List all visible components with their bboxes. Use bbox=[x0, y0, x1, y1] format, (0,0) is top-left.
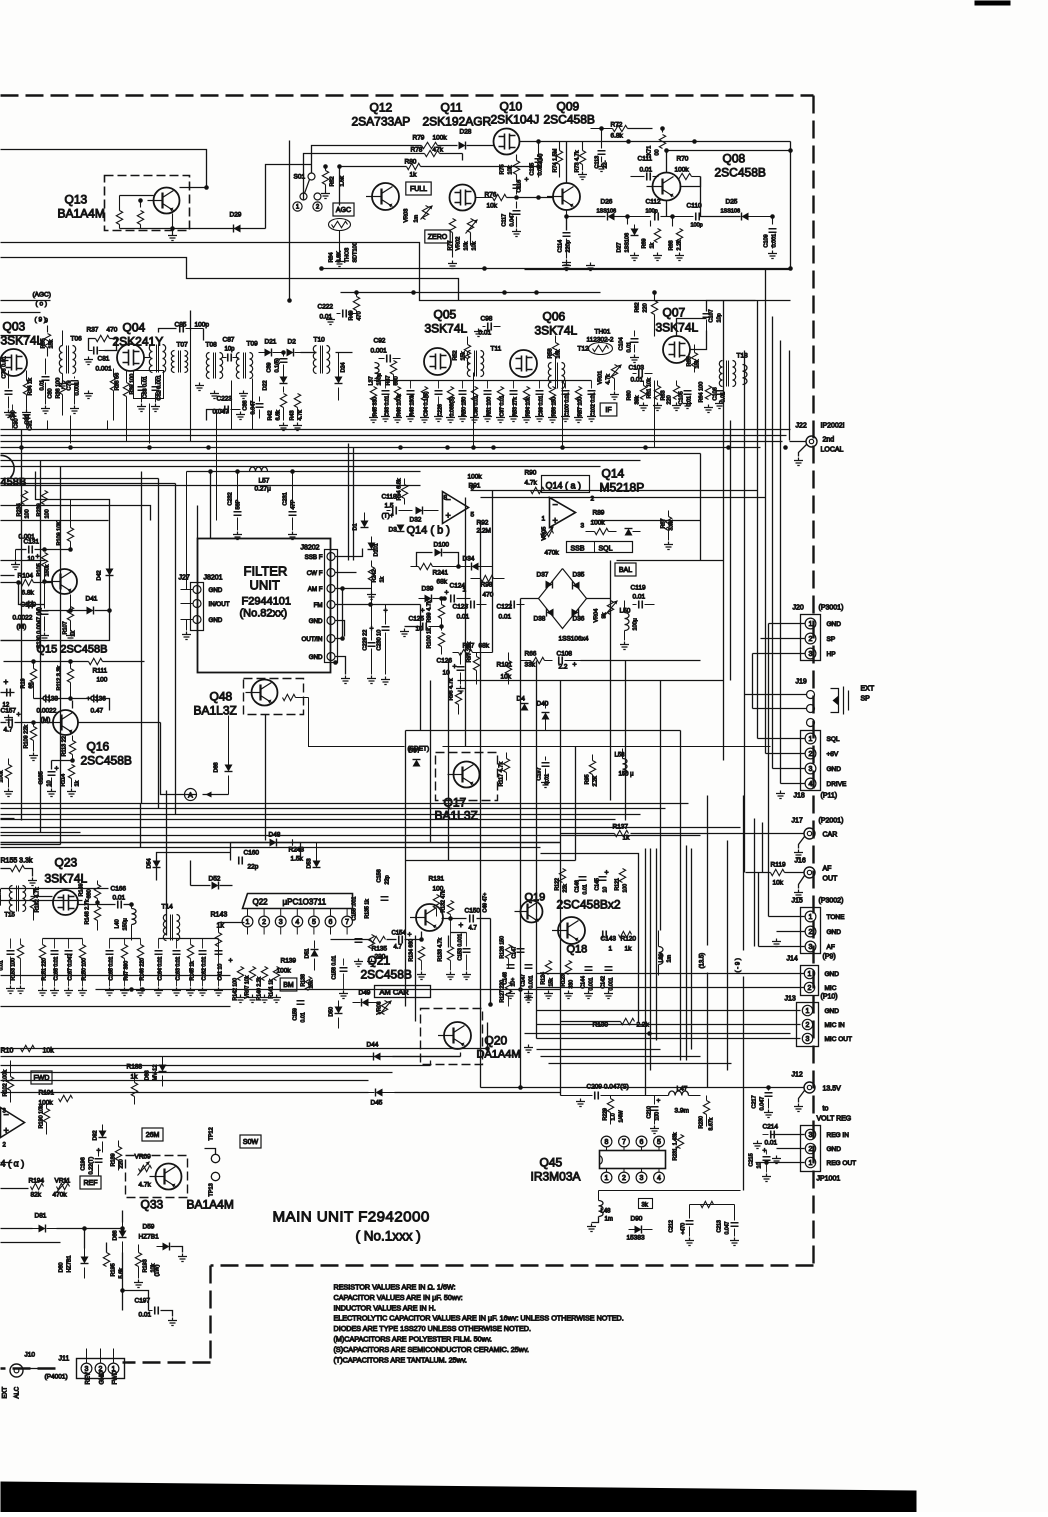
wire to J17 bbox=[631, 833, 804, 835]
top block bottom rail bbox=[525, 269, 541, 271]
svg-text:UNIT: UNIT bbox=[250, 578, 280, 593]
svg-text:BA1A4M: BA1A4M bbox=[187, 1198, 234, 1212]
svg-text:OUT: OUT bbox=[823, 876, 839, 883]
svg-text:J14: J14 bbox=[787, 956, 798, 963]
svg-text:R148 2.7k: R148 2.7k bbox=[85, 899, 91, 924]
main unit dashed border step left bbox=[123, 1361, 211, 1363]
fet Q04 bbox=[117, 344, 144, 371]
svg-text:3k: 3k bbox=[642, 1203, 649, 1209]
svg-text:+: + bbox=[453, 664, 457, 671]
ground C116 path bbox=[516, 191, 518, 195]
svg-text:R121: R121 bbox=[615, 878, 621, 891]
svg-text:220: 220 bbox=[375, 954, 386, 961]
svg-text:C142: C142 bbox=[601, 976, 607, 989]
svg-text:R130: R130 bbox=[593, 1022, 609, 1029]
svg-text:MV-12: MV-12 bbox=[153, 1065, 159, 1081]
bus stack verticals bbox=[140, 804, 142, 848]
Q15 loop wires bbox=[1, 472, 110, 641]
svg-text:D36: D36 bbox=[573, 616, 585, 623]
svg-text:R36 100: R36 100 bbox=[56, 378, 62, 399]
J22 jack bbox=[806, 436, 817, 447]
svg-text:to: to bbox=[823, 1106, 829, 1113]
svg-text:C104: C104 bbox=[619, 337, 625, 350]
svg-text:C217: C217 bbox=[752, 1095, 758, 1108]
svg-text:DRIVE: DRIVE bbox=[827, 781, 848, 788]
svg-text:R120: R120 bbox=[621, 936, 637, 943]
svg-text:0.001: 0.001 bbox=[96, 366, 113, 373]
main unit dashed border top bbox=[1, 94, 814, 96]
long vertical x420 q17 bbox=[420, 605, 422, 731]
svg-text:T10: T10 bbox=[314, 337, 326, 344]
svg-text:T15: T15 bbox=[5, 913, 16, 919]
long wire from FM pin bbox=[371, 604, 421, 606]
svg-text:220: 220 bbox=[667, 395, 673, 404]
boxed label BAL bbox=[615, 563, 636, 576]
Q45 area wires bbox=[615, 1095, 661, 1097]
svg-text:0.01: 0.01 bbox=[631, 377, 644, 384]
svg-text:C157: C157 bbox=[1, 708, 17, 715]
svg-text:4: 4 bbox=[809, 781, 813, 788]
horizontal y975 left bbox=[1, 975, 231, 977]
svg-text:FULL: FULL bbox=[410, 186, 427, 193]
long vertical x575 bbox=[575, 747, 577, 861]
right rail of top block bbox=[541, 142, 791, 270]
svg-text:2SA733AP: 2SA733AP bbox=[352, 115, 411, 129]
svg-text:J20: J20 bbox=[793, 605, 804, 612]
transistor Q16 bbox=[47, 710, 78, 735]
svg-text:+: + bbox=[605, 870, 609, 877]
wire y918 collector bbox=[442, 918, 467, 920]
bus y268 bbox=[322, 268, 791, 270]
svg-text:C150: C150 bbox=[465, 908, 481, 915]
grounds top block bbox=[562, 263, 571, 271]
svg-text:VOLT REG: VOLT REG bbox=[817, 1116, 852, 1123]
svg-text:2: 2 bbox=[809, 751, 813, 758]
svg-text:D3: D3 bbox=[389, 527, 398, 534]
svg-text:0.001: 0.001 bbox=[529, 975, 535, 988]
svg-text:C154: C154 bbox=[392, 931, 407, 937]
svg-text:R10: R10 bbox=[1, 1048, 14, 1055]
svg-text:LOCAL: LOCAL bbox=[821, 447, 844, 454]
long vertical x660 bbox=[660, 681, 662, 931]
svg-text:R62: R62 bbox=[635, 302, 641, 312]
svg-text:(AGC): (AGC) bbox=[33, 292, 51, 299]
svg-text:AGC: AGC bbox=[336, 207, 351, 214]
bus y278-292 bbox=[341, 292, 601, 294]
svg-text:C85: C85 bbox=[175, 322, 187, 329]
misc horizontals lower mid bbox=[230, 843, 232, 861]
svg-text:1: 1 bbox=[808, 971, 812, 978]
svg-text:100k: 100k bbox=[468, 474, 483, 481]
svg-text:0.01: 0.01 bbox=[139, 1312, 152, 1319]
wire R78 row bbox=[304, 154, 425, 200]
svg-text:R195: R195 bbox=[111, 1263, 117, 1276]
scan artifact black bar bottom bbox=[1, 1482, 917, 1513]
svg-text:100p: 100p bbox=[195, 322, 210, 329]
svg-text:GND: GND bbox=[827, 1146, 842, 1153]
svg-text:C82 0.001: C82 0.001 bbox=[157, 375, 163, 400]
svg-text:OUT/IN: OUT/IN bbox=[302, 636, 323, 643]
svg-text:00: 00 bbox=[655, 149, 661, 155]
svg-text:C118: C118 bbox=[382, 494, 397, 501]
J8202 pin strip bbox=[325, 550, 338, 663]
svg-text:J16: J16 bbox=[795, 858, 806, 865]
J12 jack bbox=[804, 1082, 815, 1093]
bus y989 bbox=[96, 989, 561, 991]
svg-text:C115: C115 bbox=[530, 163, 536, 176]
wires J8202 right bbox=[336, 549, 363, 557]
svg-text:4: 4 bbox=[295, 919, 299, 926]
svg-text:100: 100 bbox=[25, 509, 31, 518]
transistor Q09 bbox=[547, 183, 580, 210]
svg-text:+: + bbox=[763, 1148, 767, 1155]
svg-text:10k: 10k bbox=[487, 203, 498, 210]
svg-text:Q03: Q03 bbox=[3, 320, 26, 334]
svg-text:R113 22: R113 22 bbox=[62, 736, 68, 756]
svg-text:MIC OUT: MIC OUT bbox=[825, 1036, 852, 1043]
svg-text:R123: R123 bbox=[561, 974, 567, 987]
drops from Q20 region bbox=[487, 1023, 489, 1049]
svg-text:FWD: FWD bbox=[34, 1075, 50, 1082]
svg-text:22-: 22- bbox=[603, 160, 609, 168]
wire S01 up to R79 line bbox=[312, 146, 422, 173]
left bus stack lower bbox=[1, 1048, 488, 1050]
svg-text:(P2001): (P2001) bbox=[819, 818, 844, 825]
svg-text:Q33: Q33 bbox=[141, 1198, 164, 1212]
svg-text:3: 3 bbox=[85, 1366, 89, 1373]
svg-text:FM: FM bbox=[314, 602, 323, 609]
svg-text:Q45: Q45 bbox=[540, 1156, 563, 1170]
svg-text:C229 22: C229 22 bbox=[363, 630, 369, 651]
svg-text:C110: C110 bbox=[687, 203, 702, 210]
svg-text:R153 100: R153 100 bbox=[11, 958, 17, 981]
vertical x348 x353 bbox=[348, 444, 350, 561]
svg-text:+: + bbox=[525, 177, 529, 184]
svg-text:R84: R84 bbox=[329, 252, 335, 262]
svg-text:+: + bbox=[4, 1126, 9, 1136]
svg-text:R122: R122 bbox=[555, 878, 561, 891]
svg-text:R64 100: R64 100 bbox=[699, 382, 705, 403]
svg-text:3.9m: 3.9m bbox=[675, 1108, 689, 1115]
bus y485 bbox=[1, 485, 421, 487]
svg-text:5: 5 bbox=[657, 1139, 661, 1146]
svg-text:(1​W): (1​W) bbox=[155, 1264, 161, 1276]
Q22 pins bbox=[242, 916, 253, 927]
svg-text:(13.5): (13.5) bbox=[700, 953, 706, 969]
svg-text:2: 2 bbox=[809, 636, 813, 643]
svg-text:3: 3 bbox=[809, 944, 813, 951]
svg-text:R193: R193 bbox=[143, 1259, 149, 1272]
fet Q06 bbox=[510, 350, 537, 377]
svg-text:1/4W: 1/4W bbox=[619, 1110, 625, 1122]
long vertical x480 bbox=[480, 521, 482, 1088]
Q14a box bbox=[542, 476, 590, 493]
main unit dashed border right bbox=[812, 96, 814, 1266]
svg-text:(M)CAPACITORS ARE POLYESTER: (M)CAPACITORS ARE POLYESTER FILM. 50wv. bbox=[334, 1335, 492, 1344]
wires bottom left bbox=[1, 1228, 33, 1230]
svg-text:3SK74L: 3SK74L bbox=[535, 324, 578, 338]
svg-text:+: + bbox=[445, 590, 449, 597]
svg-text:4.7k: 4.7k bbox=[298, 410, 304, 421]
svg-text:100p: 100p bbox=[691, 223, 703, 229]
wires around Q08 bbox=[667, 151, 791, 173]
diode D91 bbox=[625, 529, 633, 536]
svg-text:BA1L3Z: BA1L3Z bbox=[435, 809, 478, 823]
svg-text:R102 100k: R102 100k bbox=[3, 1070, 9, 1097]
svg-text:C91: C91 bbox=[28, 420, 34, 430]
svg-text:IR3M03A: IR3M03A bbox=[531, 1170, 581, 1184]
svg-text:DIODES ARE TYPE 1SS270 UNL: DIODES ARE TYPE 1SS270 UNLESS OTHERWISE … bbox=[334, 1324, 531, 1333]
svg-text:33k: 33k bbox=[525, 662, 536, 669]
svg-text:L40: L40 bbox=[115, 919, 121, 928]
svg-text:R37: R37 bbox=[87, 327, 99, 334]
main unit dashed border left stub bbox=[1, 1367, 56, 1369]
svg-text:R98: R98 bbox=[481, 582, 493, 589]
main bus stack bbox=[1, 429, 791, 431]
svg-text:( No.1xxx ): ( No.1xxx ) bbox=[356, 1229, 421, 1244]
svg-text:Q22: Q22 bbox=[253, 898, 269, 907]
svg-text:R69: R69 bbox=[642, 238, 648, 248]
svg-text:VR02: VR02 bbox=[456, 237, 462, 251]
svg-text:R49: R49 bbox=[349, 310, 355, 320]
Q33 dashed box bbox=[126, 1156, 188, 1198]
svg-text:10: 10 bbox=[757, 1162, 763, 1168]
svg-text:0.001: 0.001 bbox=[609, 977, 615, 990]
svg-text:10p: 10p bbox=[225, 347, 236, 353]
svg-text:R230: R230 bbox=[699, 1116, 705, 1129]
svg-text:AM CAR: AM CAR bbox=[380, 988, 410, 997]
svg-text:FWD: FWD bbox=[113, 1370, 119, 1384]
svg-text:J8201: J8201 bbox=[204, 575, 223, 582]
svg-text:+: + bbox=[4, 678, 9, 687]
svg-text:470: 470 bbox=[357, 311, 363, 320]
right vertical bundle bbox=[757, 301, 759, 681]
svg-text:(P10): (P10) bbox=[821, 994, 838, 1001]
svg-text:GND: GND bbox=[309, 618, 323, 625]
svg-text:J19: J19 bbox=[796, 679, 807, 686]
svg-text:F2944101: F2944101 bbox=[242, 596, 292, 608]
Q48 dashed box bbox=[244, 679, 304, 715]
svg-text:IF: IF bbox=[605, 407, 611, 414]
svg-text:R75: R75 bbox=[500, 164, 506, 174]
svg-text:6: 6 bbox=[329, 919, 333, 926]
svg-text:0.047: 0.047 bbox=[725, 1221, 731, 1234]
long vertical x560 bbox=[560, 681, 562, 1096]
svg-text:R1​32 47k: R1​32 47k bbox=[441, 890, 447, 913]
svg-text:D45: D45 bbox=[371, 1100, 383, 1107]
svg-text:100p: 100p bbox=[646, 209, 658, 215]
svg-text:C212: C212 bbox=[669, 1220, 675, 1233]
svg-text:J10: J10 bbox=[25, 1352, 36, 1359]
Q16 collector wire bbox=[72, 701, 74, 709]
svg-text:R78: R78 bbox=[411, 147, 423, 154]
J8201 strip bbox=[191, 583, 204, 631]
svg-text:C209 0.047(S): C209 0.047(S) bbox=[587, 1084, 629, 1091]
svg-text:(P4001): (P4001) bbox=[45, 1374, 68, 1381]
svg-text:JP1001: JP1001 bbox=[817, 1176, 841, 1183]
svg-text:4.7: 4.7 bbox=[394, 945, 403, 951]
svg-text:R114: R114 bbox=[61, 774, 67, 787]
svg-text:1k: 1k bbox=[75, 780, 81, 786]
svg-text:10p: 10p bbox=[717, 313, 723, 322]
svg-text:4.7k: 4.7k bbox=[525, 480, 538, 487]
svg-text:C89: C89 bbox=[267, 362, 273, 372]
Q45 top pins bbox=[601, 1136, 612, 1147]
svg-text:(P9): (P9) bbox=[823, 954, 836, 961]
mid horizontals y660-700 bbox=[581, 660, 701, 662]
svg-text:REG IN: REG IN bbox=[827, 1132, 850, 1139]
main unit dashed border step down bbox=[209, 1266, 211, 1363]
svg-text:J27: J27 bbox=[179, 575, 190, 582]
svg-text:R58: R58 bbox=[548, 348, 554, 358]
svg-text:470k: 470k bbox=[53, 1192, 68, 1199]
svg-text:AM F: AM F bbox=[308, 586, 323, 593]
left partial transistor Q02 bbox=[1, 455, 15, 477]
svg-text:0.01: 0.01 bbox=[499, 614, 512, 621]
svg-text:100: 100 bbox=[45, 509, 51, 518]
svg-text:MIC: MIC bbox=[825, 985, 837, 992]
svg-text:2SC458B: 2SC458B bbox=[544, 113, 595, 127]
svg-text:2: 2 bbox=[808, 985, 812, 992]
svg-text:+: + bbox=[17, 712, 21, 719]
filter unit box bbox=[198, 539, 331, 673]
J16 jack bbox=[804, 867, 815, 878]
svg-text:D22: D22 bbox=[263, 380, 269, 390]
vertical Q07 comb drops bbox=[654, 381, 656, 448]
connector J20 bbox=[801, 615, 821, 661]
svg-text:0.01: 0.01 bbox=[113, 895, 126, 902]
svg-text:10: 10 bbox=[28, 557, 35, 563]
svg-text:TP13: TP13 bbox=[209, 1183, 215, 1196]
svg-text:R138: R138 bbox=[301, 974, 307, 987]
svg-text:R135 1k: R135 1k bbox=[365, 899, 371, 919]
svg-text:GND: GND bbox=[209, 617, 223, 624]
svg-text:C116: C116 bbox=[517, 180, 523, 193]
transistor Q18 bbox=[552, 917, 585, 944]
Q48 emitter resistor bbox=[283, 694, 296, 700]
svg-text:2.2M: 2.2M bbox=[477, 528, 491, 535]
vertical T11 drop bbox=[473, 373, 475, 448]
J14 wires bbox=[537, 987, 805, 989]
svg-text:10k: 10k bbox=[508, 165, 514, 174]
cap C154 4.7+ bbox=[399, 936, 403, 944]
svg-text:Q11: Q11 bbox=[441, 101, 463, 115]
svg-text:+: + bbox=[459, 921, 464, 930]
wires Q16 zone bbox=[1, 520, 109, 522]
svg-text:8: 8 bbox=[444, 495, 448, 502]
resistor R135 220 bbox=[371, 936, 386, 942]
wires Q04 bbox=[105, 350, 118, 352]
svg-text:1m: 1m bbox=[414, 214, 420, 222]
boxed label ZERO bbox=[425, 230, 450, 243]
svg-text:0.27μ: 0.27μ bbox=[255, 486, 272, 493]
svg-text:+: + bbox=[408, 932, 412, 939]
svg-text:R188: R188 bbox=[127, 1064, 143, 1071]
svg-text:D27: D27 bbox=[617, 242, 623, 252]
svg-text:C146: C146 bbox=[575, 880, 581, 893]
svg-text:1: 1 bbox=[609, 946, 613, 953]
svg-text:1: 1 bbox=[809, 621, 813, 628]
svg-text:7: 7 bbox=[622, 1139, 626, 1146]
svg-text:GND: GND bbox=[827, 766, 842, 773]
fet Q23 bbox=[53, 890, 78, 915]
wires J20 J19 bbox=[769, 623, 805, 625]
svg-text:2SC458Bx2: 2SC458Bx2 bbox=[557, 898, 621, 912]
svg-text:C153 0.001: C153 0.001 bbox=[458, 934, 464, 961]
svg-text:Q04: Q04 bbox=[123, 321, 146, 335]
svg-text:C222: C222 bbox=[318, 304, 334, 311]
wire bus into J22 bbox=[790, 441, 807, 443]
svg-text:R241: R241 bbox=[433, 570, 449, 577]
svg-text:T12: T12 bbox=[578, 346, 590, 353]
svg-text:1k: 1k bbox=[217, 923, 225, 930]
svg-text:SQL: SQL bbox=[827, 736, 840, 743]
svg-text:R70: R70 bbox=[677, 156, 689, 163]
svg-text:R112 3.3k: R112 3.3k bbox=[57, 666, 63, 691]
svg-text:EXT: EXT bbox=[3, 1386, 9, 1398]
weave bottom right bbox=[537, 1049, 661, 1051]
transistor Q15 bbox=[46, 569, 77, 594]
svg-text:C215: C215 bbox=[749, 1153, 755, 1166]
svg-text:+8V: +8V bbox=[827, 751, 839, 758]
svg-text:R91: R91 bbox=[469, 483, 481, 490]
svg-text:Q09: Q09 bbox=[557, 100, 580, 114]
svg-text:1SS106x4: 1SS106x4 bbox=[559, 636, 589, 643]
svg-text:D59: D59 bbox=[143, 1224, 155, 1231]
fet Q03 bbox=[0, 349, 27, 376]
svg-text:J11: J11 bbox=[59, 1356, 70, 1363]
long vertical x465 y470-745 bbox=[465, 498, 467, 747]
Q17 dashed box bbox=[436, 753, 498, 801]
svg-text:D42: D42 bbox=[97, 570, 103, 580]
svg-text:MIC IN: MIC IN bbox=[825, 1022, 846, 1029]
svg-text:0.01: 0.01 bbox=[633, 594, 646, 601]
svg-text:1m: 1m bbox=[667, 954, 673, 962]
svg-text:C81: C81 bbox=[98, 356, 110, 363]
bridge input wire bbox=[587, 598, 611, 600]
svg-text:R126 150: R126 150 bbox=[500, 936, 506, 959]
svg-text:C88: C88 bbox=[243, 400, 249, 410]
svg-text:C92: C92 bbox=[374, 338, 386, 345]
fet Q05 bbox=[424, 348, 451, 375]
svg-text:T07: T07 bbox=[177, 342, 189, 349]
wire T15 to Q23 bbox=[31, 896, 53, 898]
svg-text:6.8k: 6.8k bbox=[276, 410, 282, 421]
svg-text:C214: C214 bbox=[763, 1124, 779, 1131]
svg-text:CW F: CW F bbox=[307, 570, 323, 577]
svg-text:1k: 1k bbox=[380, 576, 386, 582]
wire from AGC bus up to R80 bbox=[339, 167, 341, 206]
mid horizontal y490 bbox=[471, 490, 758, 492]
svg-text:T13: T13 bbox=[737, 353, 749, 360]
Q13 base resistors bbox=[140, 201, 142, 208]
svg-text:L57: L57 bbox=[259, 478, 270, 485]
svg-text:C90: C90 bbox=[14, 418, 20, 428]
svg-text:1m: 1m bbox=[605, 1217, 613, 1223]
svg-text:4: 4 bbox=[657, 1175, 661, 1182]
svg-text:+: + bbox=[446, 511, 451, 521]
fet Q07 bbox=[663, 336, 690, 363]
J22 ground bbox=[799, 445, 807, 457]
wire from D29 up bbox=[266, 165, 312, 229]
transformer T07b bbox=[171, 351, 174, 373]
svg-text:R155 3.3k: R155 3.3k bbox=[1, 858, 33, 865]
svg-text:C166: C166 bbox=[111, 886, 127, 893]
svg-text:J17: J17 bbox=[792, 818, 803, 825]
wires Q21 zone bbox=[415, 936, 417, 1022]
svg-text:Q14 ( a ): Q14 ( a ) bbox=[546, 481, 582, 491]
wire top of Q22 row bbox=[157, 853, 231, 881]
